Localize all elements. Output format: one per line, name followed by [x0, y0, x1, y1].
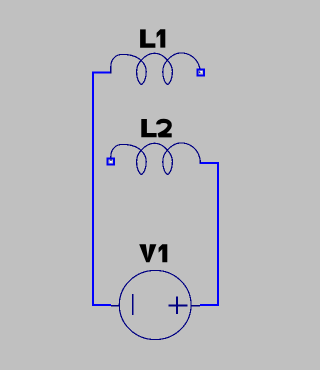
- V1 minus bar: [132, 294, 134, 315]
- label L2: [141, 119, 156, 137]
- wire from V1 minus up left side to L1 pin 1: [93, 73, 112, 306]
- label V1: [139, 244, 156, 262]
- V1 plus sign: [169, 296, 188, 314]
- voltage source V1 circle: [119, 270, 191, 339]
- inductor L1 coil: [111, 53, 201, 85]
- V1 left lead: [111, 305, 120, 307]
- L2 pin 1 stub and dot: [110, 159, 112, 162]
- inductor L2 coil: [111, 143, 201, 175]
- L1 pin 2 open terminal square: [198, 70, 204, 76]
- V1 right lead: [190, 305, 200, 307]
- L1 pin 2 dot: [199, 72, 201, 74]
- wire from L2 pin 2 down right side to V1 plus: [200, 163, 219, 305]
- label L1: [140, 29, 155, 47]
- L2 pin 1 open terminal square: [108, 159, 114, 165]
